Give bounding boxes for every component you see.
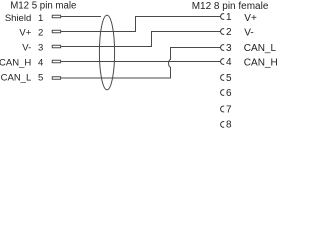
svg-text:4: 4 <box>226 57 232 68</box>
svg-text:3: 3 <box>38 43 43 54</box>
svg-text:2: 2 <box>38 27 43 38</box>
svg-text:2: 2 <box>226 27 232 38</box>
svg-text:4: 4 <box>38 58 43 69</box>
svg-text:V-: V- <box>22 43 31 54</box>
svg-text:CAN_L: CAN_L <box>244 43 277 54</box>
svg-text:3: 3 <box>226 43 232 54</box>
svg-text:6: 6 <box>226 88 232 99</box>
svg-text:Shield: Shield <box>5 13 31 24</box>
svg-text:5: 5 <box>226 73 232 84</box>
svg-text:CAN_L: CAN_L <box>1 72 32 83</box>
svg-text:1: 1 <box>226 12 232 23</box>
svg-text:CAN_H: CAN_H <box>0 58 31 69</box>
svg-text:1: 1 <box>38 13 43 24</box>
svg-text:M12 5 pin male: M12 5 pin male <box>10 1 76 12</box>
svg-text:CAN_H: CAN_H <box>244 57 277 68</box>
svg-text:M12 8 pin female: M12 8 pin female <box>192 1 269 12</box>
svg-text:5: 5 <box>38 72 43 83</box>
svg-text:7: 7 <box>226 105 232 116</box>
svg-text:V+: V+ <box>19 27 31 38</box>
svg-text:V-: V- <box>244 27 253 38</box>
svg-text:V+: V+ <box>244 13 257 24</box>
svg-text:8: 8 <box>226 120 232 128</box>
